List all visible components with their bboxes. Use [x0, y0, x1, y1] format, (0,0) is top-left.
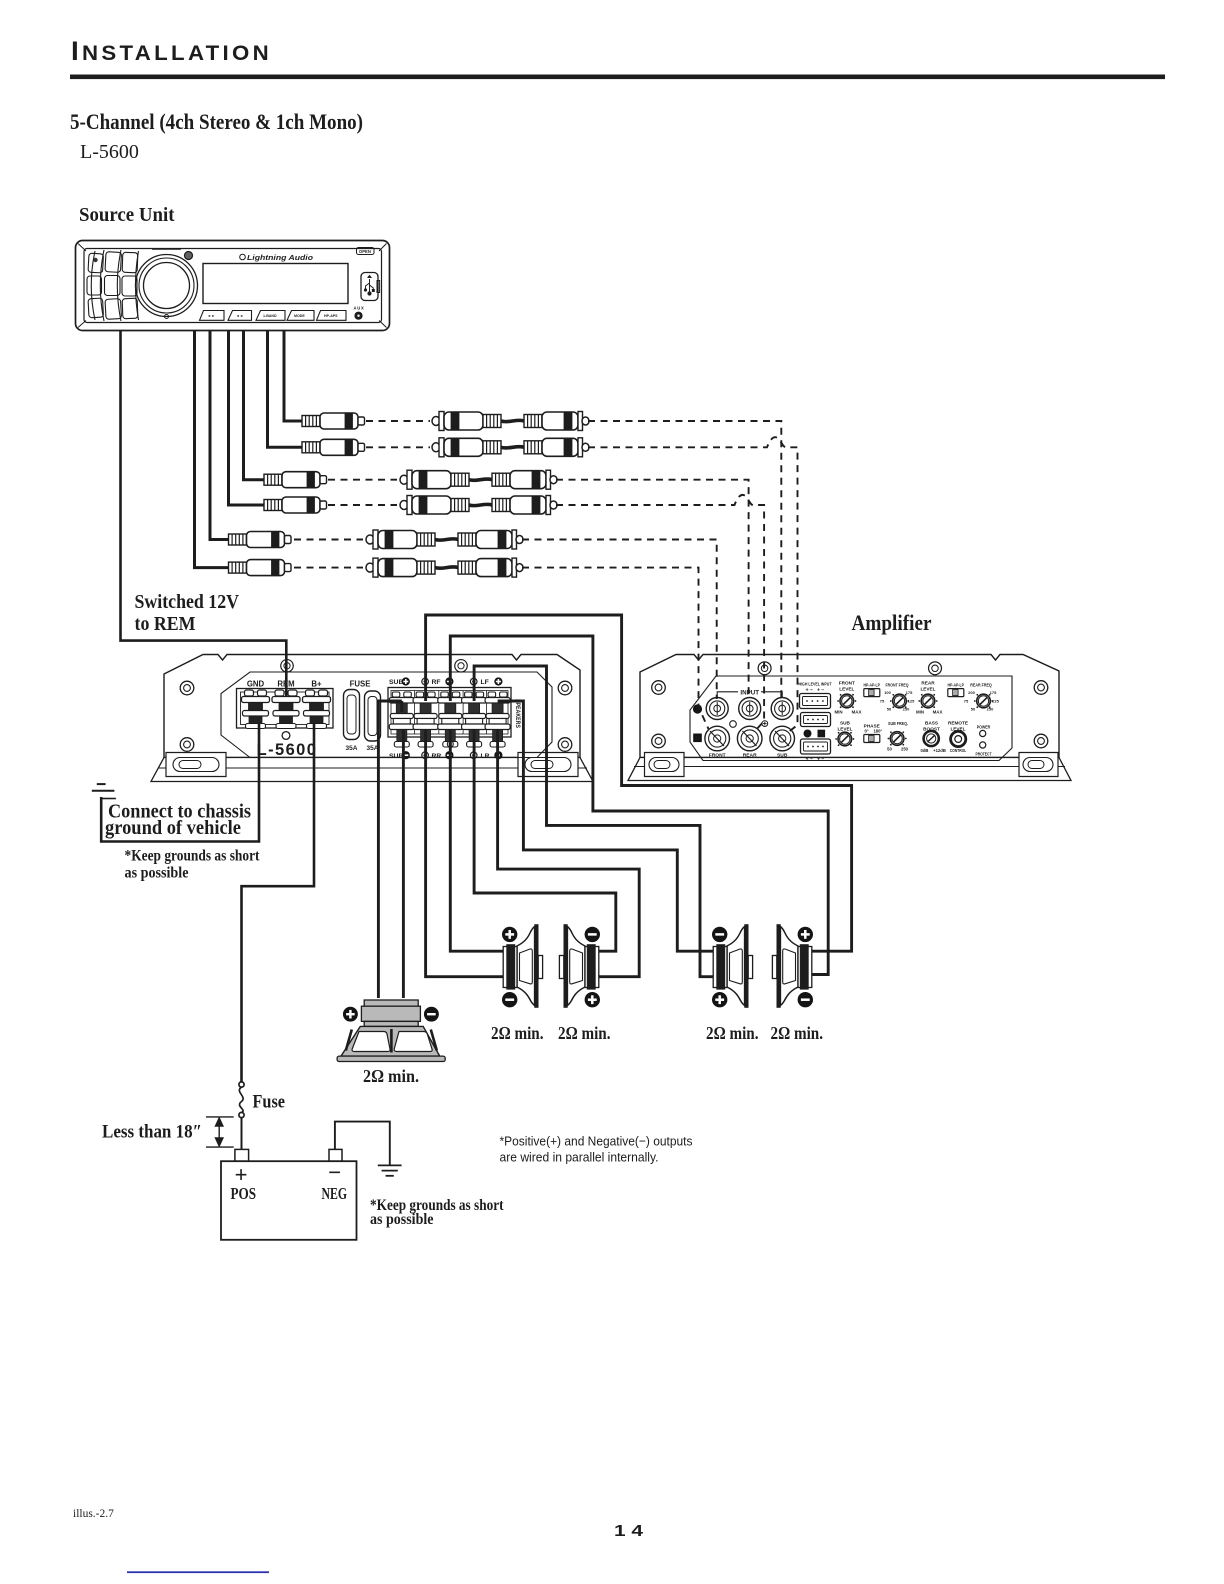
svg-text:REAR FREQ: REAR FREQ [970, 683, 992, 688]
svg-text:+ − + −: + − + − [806, 688, 825, 694]
speaker wire RR to speaker2 top [474, 730, 616, 951]
svg-text:LF: LF [481, 679, 489, 686]
left mounting foot [645, 753, 685, 777]
svg-text:ground of vehicle: ground of vehicle [105, 817, 241, 839]
RCA coupler row 3 [400, 470, 557, 489]
RCA coupler row 6 [366, 558, 523, 577]
corner screws [180, 681, 194, 695]
right mounting foot [518, 752, 578, 776]
dashed cable row 6 to R-front input [522, 568, 709, 729]
B+ wire to fuse [241, 724, 314, 1082]
corner bevels [78, 243, 387, 327]
svg-text:5-Channel (4ch Stereo & 1ch Mo: 5-Channel (4ch Stereo & 1ch Mono) [70, 109, 363, 134]
input jack L front [706, 698, 728, 720]
PROTECT LED [980, 742, 986, 748]
svg-text:illus.-2.7: illus.-2.7 [73, 1508, 114, 1520]
wire from source unit to RCA row 1 [284, 331, 302, 421]
left mounting foot [166, 752, 226, 776]
RCA plug row 5 [229, 531, 292, 547]
speaker terminal columns [389, 692, 414, 747]
volume knob [136, 254, 198, 316]
RCA plug row 3 [264, 472, 327, 488]
svg-text:OPEN: OPEN [359, 249, 371, 254]
svg-text:2Ω min.: 2Ω min. [363, 1066, 419, 1086]
bottom terminal labels: SUB - RR - LR + [389, 753, 490, 760]
speaker wire LF- to speaker3 top [498, 701, 716, 951]
svg-text:MAX: MAX [933, 710, 943, 715]
OPEN button [357, 247, 375, 254]
BASS BOOST knob [924, 731, 939, 746]
svg-text:SUB: SUB [389, 753, 403, 760]
display window [203, 263, 348, 303]
svg-text:SUB: SUB [389, 679, 403, 686]
USB port [361, 272, 378, 300]
RCA plug row 6 [229, 560, 292, 576]
RCA coupler row 4 [400, 495, 557, 514]
input jack L sub [771, 698, 793, 720]
svg-text:50: 50 [887, 747, 892, 752]
svg-text:1-BAND: 1-BAND [263, 314, 277, 318]
left col buttons [88, 253, 103, 273]
base plate [151, 757, 593, 781]
svg-text:REMOTE: REMOTE [948, 721, 968, 726]
recessed rear panel [221, 672, 552, 758]
SUB LEVEL knob [835, 732, 854, 746]
input jack R rear [737, 726, 762, 751]
svg-text:2Ω min.: 2Ω min. [706, 1023, 759, 1043]
dashed cable row 6 [294, 567, 363, 569]
bottom button row [200, 310, 225, 320]
blue rule [127, 1571, 269, 1573]
svg-text:FRONT: FRONT [839, 681, 855, 686]
svg-text:SPEAKERS: SPEAKERS [514, 699, 521, 729]
top terminal labels: SUB + RF - LF + [389, 679, 489, 686]
svg-text:2Ω min.: 2Ω min. [558, 1023, 611, 1043]
control labels row 2 [837, 721, 991, 757]
svg-text:MODE: MODE [294, 314, 305, 318]
POWER LED [980, 730, 986, 736]
speaker wire to speaker1 top [450, 730, 503, 951]
svg-text:Switched 12V: Switched 12V [135, 591, 240, 613]
svg-text:100: 100 [884, 690, 891, 695]
svg-text:225: 225 [992, 699, 999, 704]
dashed cable row 5 to L-front input [522, 539, 717, 699]
svg-text:HP-AP-LP: HP-AP-LP [863, 683, 880, 688]
svg-text:L-5600: L-5600 [257, 741, 318, 759]
speaker wire to speaker1 bottom [426, 730, 503, 977]
svg-text:Fuse: Fuse [252, 1091, 285, 1112]
svg-text:PROTECT: PROTECT [976, 752, 992, 757]
fuse symbol [239, 1082, 244, 1150]
REAR FREQ knob [974, 694, 993, 708]
chassis ground symbol [92, 784, 116, 798]
dashed cable row 1 to L-sub input [588, 421, 781, 699]
svg-text:2Ω min.: 2Ω min. [770, 1023, 823, 1043]
L badge [693, 704, 702, 713]
svg-text:75: 75 [880, 699, 885, 704]
dashed cable row 5 [294, 538, 363, 540]
input jack R sub [770, 726, 795, 751]
svg-text:35A: 35A [346, 745, 358, 752]
wire to RCA row 2 [268, 331, 303, 447]
GND terminal [242, 690, 270, 729]
speaker wire RF+ to speaker4 top [426, 615, 852, 951]
HP-AP-LP switch 2 [948, 689, 964, 697]
svg-text:are wired in parallel internal: are wired in parallel internally. [499, 1149, 658, 1164]
svg-text:LEVEL: LEVEL [839, 687, 854, 692]
SUB FREQ knob [888, 731, 907, 745]
amplifier front body [640, 655, 1059, 758]
wire to RCA row 6 [195, 331, 229, 568]
REMOTE LEVEL jack [951, 731, 966, 746]
svg-text:+ − + −: + − + − [806, 757, 825, 763]
svg-text:R: R [819, 732, 823, 738]
svg-text:RF: RF [432, 679, 441, 686]
svg-text:HIGH LEVEL INPUT: HIGH LEVEL INPUT [799, 682, 832, 687]
speaker wire LR to speaker2 bottom [498, 730, 640, 977]
freq scale labels [880, 690, 1000, 712]
svg-text:Less than 18″: Less than 18″ [102, 1121, 202, 1142]
svg-text:50: 50 [887, 707, 892, 712]
dashed cable row 4 to R-rear input (hops over row 3) [556, 495, 764, 731]
right button column [136, 251, 139, 320]
svg-text:180°: 180° [873, 729, 882, 734]
svg-text:BASS: BASS [925, 721, 938, 726]
svg-text:−: − [328, 1160, 341, 1185]
RCA plug row 2 [302, 439, 365, 455]
svg-text:FUSE: FUSE [350, 679, 371, 688]
FRONT REAR SUB labels [709, 753, 788, 759]
svg-text:0dB: 0dB [921, 748, 929, 753]
svg-text:MAX: MAX [852, 710, 862, 715]
fuse holder 1 [344, 689, 360, 739]
FRONT FREQ knob [890, 694, 909, 708]
fuse holder 2 [365, 691, 381, 741]
svg-text:INSTALLATION: INSTALLATION [71, 36, 272, 66]
svg-text:LEVEL: LEVEL [920, 687, 935, 692]
svg-text:INPUT: INPUT [740, 689, 759, 696]
middle button column [117, 250, 121, 321]
dashed cable row 2 to R-sub input (hops over row 1) [588, 437, 798, 733]
left button arc column [91, 251, 95, 320]
REM wire from source unit [121, 331, 287, 697]
REM terminal [272, 690, 300, 729]
svg-text:AUX: AUX [354, 305, 365, 310]
svg-text:HP-APS: HP-APS [324, 314, 338, 318]
svg-text:SUB: SUB [840, 721, 851, 726]
svg-text:50: 50 [971, 707, 976, 712]
subwoofer [337, 1000, 445, 1062]
brand logo [240, 254, 314, 262]
input jack L rear [739, 698, 761, 720]
svg-text:GND: GND [247, 679, 265, 688]
HP-AP-LP switch 1 [864, 689, 880, 697]
dashed cable row 3 [328, 479, 397, 481]
power terminal block [237, 688, 334, 728]
svg-text:*Positive(+) and Negative(−) o: *Positive(+) and Negative(−) outputs [499, 1133, 692, 1148]
svg-text:200: 200 [968, 690, 975, 695]
svg-text:LEVEL: LEVEL [837, 727, 852, 732]
svg-text:FRONT FREQ: FRONT FREQ [886, 683, 909, 688]
amplifier L-5600 rear body [164, 654, 580, 757]
ground symbol 2 [378, 1165, 402, 1175]
svg-text:R: R [695, 736, 700, 742]
speaker wire LF+ to speaker3 bottom [474, 666, 716, 977]
svg-text:L-5600: L-5600 [80, 141, 139, 163]
speaker 2 (front right) [559, 924, 598, 1007]
svg-text:HP-AP-LP: HP-AP-LP [947, 683, 964, 688]
speaker terminal block [388, 687, 511, 737]
svg-text:to REM: to REM [135, 613, 196, 635]
svg-text:POS: POS [230, 1184, 256, 1203]
svg-text:POWER: POWER [977, 725, 991, 730]
power button dot [185, 251, 193, 259]
svg-text:75: 75 [964, 699, 969, 704]
REAR LEVEL knob [918, 694, 937, 708]
dashed cable row 2 [366, 446, 430, 448]
source unit inner faceplate [84, 248, 382, 322]
dimension arrow [206, 1117, 234, 1147]
svg-text:CONTROL: CONTROL [950, 748, 967, 753]
base plate [628, 758, 1071, 781]
svg-text:Source Unit: Source Unit [79, 204, 175, 226]
svg-text:35A: 35A [367, 745, 379, 752]
svg-text:as possible: as possible [124, 864, 188, 881]
RCA coupler row 5 [366, 530, 523, 549]
RCA coupler row 1 [432, 411, 589, 430]
dashed cable row 4 [328, 504, 397, 506]
svg-text:B+: B+ [311, 679, 322, 688]
B+ terminal [303, 690, 331, 729]
speaker 3 (rear left) [713, 925, 752, 1008]
svg-text:REAR: REAR [743, 753, 757, 759]
input jack R front [705, 726, 730, 751]
dashed cable row 1 [366, 420, 430, 422]
svg-text:*Keep grounds as short: *Keep grounds as short [124, 847, 260, 864]
battery NEG wire to ground [335, 1122, 390, 1165]
dashed cable row 3 to L-rear input [556, 480, 749, 699]
small vents [730, 721, 737, 728]
svg-text:SUB: SUB [777, 753, 788, 759]
svg-text:1 4: 1 4 [614, 1523, 643, 1540]
RCA plug row 1 [302, 413, 365, 429]
svg-text:175: 175 [990, 690, 997, 695]
battery [221, 1149, 357, 1239]
svg-text:2Ω min.: 2Ω min. [491, 1023, 544, 1043]
svg-text:as possible: as possible [370, 1211, 434, 1228]
FRONT LEVEL knob [837, 694, 856, 708]
wire to RCA row 3 [244, 331, 265, 480]
svg-text:MIN: MIN [916, 710, 924, 715]
svg-text:Amplifier: Amplifier [852, 610, 932, 635]
indicator hole [282, 732, 290, 740]
RCA plug row 4 [264, 497, 327, 513]
svg-text:MIN: MIN [834, 710, 842, 715]
svg-text:FRONT: FRONT [709, 753, 726, 759]
header rule [70, 74, 1165, 79]
RCA coupler row 2 [432, 438, 589, 457]
GND wire to chassis ground [101, 724, 259, 842]
svg-text:SUB FREQ.: SUB FREQ. [888, 721, 908, 726]
right mounting foot [1019, 753, 1058, 777]
svg-text:◄◄: ◄◄ [236, 314, 243, 318]
svg-text:175: 175 [906, 690, 913, 695]
sub wire - [402, 730, 405, 998]
recessed front panel [690, 676, 1012, 761]
svg-text:REAR: REAR [921, 681, 935, 686]
speaker wire RF- to speaker4 bottom [450, 636, 828, 975]
speaker 1 (front left) [503, 924, 542, 1007]
speaker 4 (rear right) [772, 925, 811, 1008]
source unit chassis outer frame [76, 240, 390, 330]
svg-text:NEG: NEG [321, 1184, 347, 1203]
sub wire + [378, 701, 401, 998]
svg-text:Lightning Audio: Lightning Audio [247, 255, 314, 262]
svg-text:250: 250 [901, 747, 909, 752]
R badge [693, 734, 702, 743]
svg-text:LR: LR [481, 753, 490, 760]
PHASE switch [864, 735, 880, 743]
svg-text:RR: RR [432, 753, 442, 760]
corner screws [652, 681, 666, 695]
wire to RCA row 4 [229, 331, 265, 505]
svg-text:►►: ►► [208, 314, 215, 318]
control labels row 1 [834, 681, 992, 715]
wire to RCA row 5 [210, 331, 229, 540]
svg-text:0°: 0° [864, 729, 868, 734]
svg-text:+12dB: +12dB [933, 748, 946, 753]
